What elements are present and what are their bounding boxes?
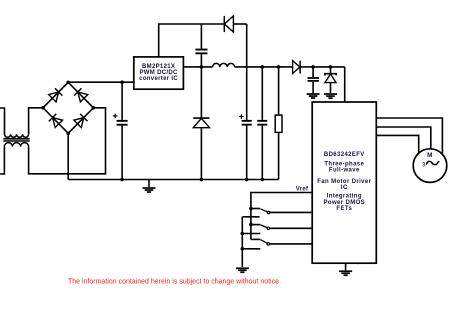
junction C3 / ground rail xyxy=(245,178,249,182)
diode D7 output xyxy=(293,61,345,74)
op-amp U2 motor driver IC box xyxy=(312,102,376,263)
bridge rectifier diamond xyxy=(43,82,93,133)
wire positive bus to U1 xyxy=(68,81,134,83)
resistor R1 xyxy=(275,67,282,180)
switch S3 xyxy=(241,239,313,250)
common-mode choke T1 winding top xyxy=(5,134,29,137)
diode D4 (bridge bottom-right) xyxy=(74,114,88,128)
common-mode choke T1 core xyxy=(3,138,29,140)
capacitor C2 snubber xyxy=(200,24,202,49)
junction C4 top xyxy=(261,65,265,69)
op-amp U1 PWM converter IC box xyxy=(134,57,184,89)
junction switch node / C2 / D6 xyxy=(200,65,204,69)
svg-text:The information contained here: The information contained herein is subj… xyxy=(68,279,281,286)
wire phase W xyxy=(376,135,418,156)
common-mode choke T1 winding bottom xyxy=(4,143,28,147)
wire Vref from U2 xyxy=(251,193,312,240)
diode D6 freewheel xyxy=(193,67,209,180)
wire U1 top pin to top rail xyxy=(159,24,225,57)
junction C5 top xyxy=(311,65,315,69)
junction C4 / ground rail xyxy=(261,178,265,182)
ground GND4 xyxy=(236,267,249,273)
label U2 text xyxy=(317,152,371,212)
svg-text:3: 3 xyxy=(422,161,426,168)
node bridge top xyxy=(66,81,70,85)
wire phase V xyxy=(376,127,431,152)
wire ground bus B xyxy=(241,217,243,267)
wire ground rail xyxy=(68,179,278,181)
node bridge left xyxy=(41,106,45,110)
wire bridge bottom to ground rail xyxy=(67,133,69,179)
svg-text:BM2P121X: BM2P121X xyxy=(142,64,175,70)
junction positive bus / C1 xyxy=(120,80,124,84)
node bridge right xyxy=(92,106,96,110)
capacitor C4 xyxy=(257,67,267,180)
label U1 text xyxy=(139,64,178,82)
wire output line to D7 xyxy=(235,66,293,68)
motor M1 xyxy=(413,149,447,183)
ground GND2 xyxy=(307,93,320,99)
diode D2 (bridge right-top) xyxy=(74,88,88,102)
diode D1 (bridge left-top) xyxy=(49,88,63,102)
diode D5 on top rail xyxy=(224,16,246,32)
node bridge bottom xyxy=(66,132,70,136)
ground GND5 under U2 xyxy=(339,263,352,276)
svg-text:BD63242EFV: BD63242EFV xyxy=(324,152,365,158)
svg-text:M: M xyxy=(427,152,432,159)
label motor tilde xyxy=(427,161,439,164)
junction D6 / ground rail xyxy=(200,178,204,182)
junction C1 / ground rail xyxy=(120,178,124,182)
polarity + of C3 xyxy=(239,114,244,119)
svg-text:IC: IC xyxy=(341,185,348,191)
svg-text:converter IC: converter IC xyxy=(139,76,178,82)
ground GND3 xyxy=(324,93,337,99)
wire top rail right corner down (crosses output line, no junction) xyxy=(246,24,248,120)
capacitor C3 output electrolytic xyxy=(242,120,252,180)
svg-text:FETs: FETs xyxy=(336,206,352,212)
wire AC return choke to bridge right node xyxy=(29,108,106,174)
inductor L2 xyxy=(213,63,235,66)
wire switch node from U1 output xyxy=(183,66,212,68)
polarity + of C1 xyxy=(113,114,118,119)
wire AC input bottom xyxy=(0,147,4,174)
capacitor C1 smoothing electrolytic xyxy=(121,82,123,120)
junction D8 top xyxy=(329,65,333,69)
switch S1 xyxy=(242,207,312,217)
zener diode D8 xyxy=(325,67,336,93)
wire AC input top xyxy=(0,108,5,134)
wire choke to bridge left node xyxy=(29,108,43,135)
diode D3 (bridge bottom-left) xyxy=(49,114,63,128)
switch S2 xyxy=(241,223,313,236)
junction R1 top xyxy=(277,65,281,69)
svg-text:Integrating: Integrating xyxy=(327,194,362,200)
wire phase U xyxy=(376,118,442,156)
wire supply into U2 top xyxy=(344,67,346,102)
svg-text:Vref: Vref xyxy=(296,186,309,192)
ground GND1 xyxy=(143,180,156,193)
capacitor C5 xyxy=(308,67,319,93)
svg-text:Full-wave: Full-wave xyxy=(329,167,360,173)
